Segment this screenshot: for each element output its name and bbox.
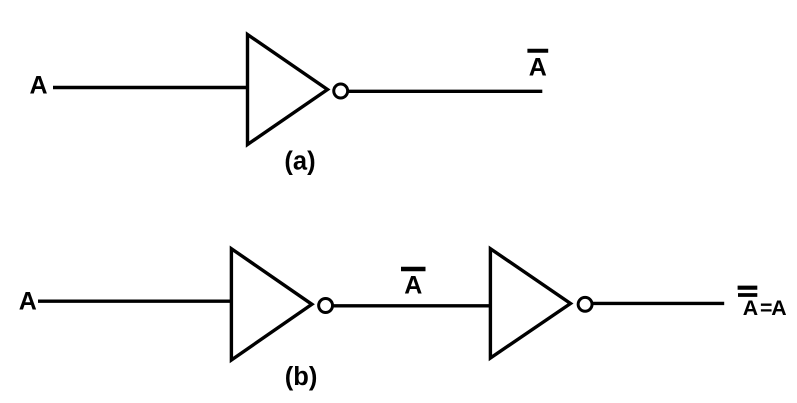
svg-text:A: A bbox=[743, 296, 758, 320]
inverter U2 triangle (figure b, first) bbox=[231, 249, 312, 360]
svg-text:A: A bbox=[529, 54, 547, 82]
wire: middle wire A-bar net (figure b) bbox=[333, 304, 491, 307]
svg-text:(a): (a) bbox=[284, 148, 315, 176]
inverter U3 bubble bbox=[578, 297, 592, 311]
inverter U1 triangle (figure a) bbox=[248, 35, 328, 145]
wire: output wire figure b bbox=[592, 302, 724, 305]
wire: input wire figure b bbox=[38, 300, 232, 303]
svg-text:A: A bbox=[771, 296, 786, 320]
node A-bar net label (figure b) bbox=[401, 269, 426, 300]
wire: input wire figure a bbox=[53, 86, 248, 89]
inverter U2 bubble bbox=[319, 299, 333, 313]
node A-double-bar = A output label (figure b) bbox=[738, 288, 787, 320]
svg-text:A: A bbox=[404, 272, 422, 300]
wire: output wire figure a bbox=[348, 90, 543, 93]
svg-text:A: A bbox=[19, 288, 37, 316]
svg-text:A: A bbox=[30, 71, 48, 99]
node A-bar output label (figure a) bbox=[527, 51, 548, 82]
inverter U1 bubble bbox=[334, 84, 348, 98]
inverter U3 triangle (figure b, second) bbox=[490, 249, 570, 358]
svg-text:(b): (b) bbox=[285, 363, 318, 391]
